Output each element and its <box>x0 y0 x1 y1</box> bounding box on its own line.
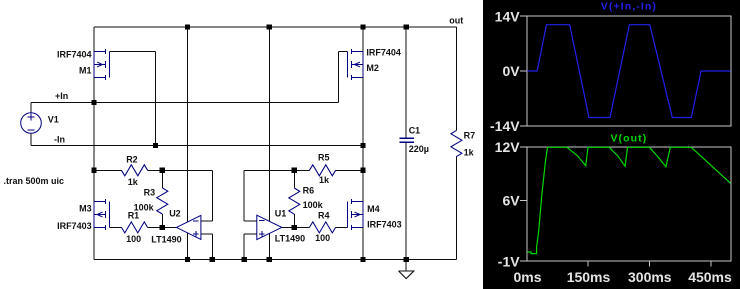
plot 2 frame <box>527 147 731 261</box>
svg-text:R2: R2 <box>126 155 138 165</box>
svg-text:.tran 500m uic: .tran 500m uic <box>4 176 65 186</box>
svg-text:IRF7403: IRF7403 <box>57 221 92 231</box>
wire U2 non-inverting stub <box>201 233 212 235</box>
trace V(out) green waveform <box>527 147 730 253</box>
wire U1 V+ supply riser <box>268 27 270 221</box>
resistor R6 100k body <box>289 188 300 214</box>
wire U2 V- to ground rail <box>186 233 188 260</box>
svg-text:V1: V1 <box>48 115 59 125</box>
wire U2 inverting input riser <box>211 170 213 221</box>
node: +In at left column <box>91 100 96 105</box>
wire R3 bottom lead <box>161 214 163 227</box>
wire R4 right lead / M4 gate <box>336 226 348 228</box>
transistor M3 IRF7403 (NMOS) <box>93 202 95 228</box>
wire R7 top lead <box>455 27 457 130</box>
node A: R2/R3/feedback <box>160 168 165 173</box>
svg-text:100: 100 <box>315 233 330 243</box>
trace V(+In,-In) blue trapezoid waveform <box>527 25 730 118</box>
wire bottom rail (ground net) <box>94 258 456 260</box>
ground symbol <box>405 259 407 271</box>
node: C1 on out rail <box>404 24 409 29</box>
wire C1 bottom lead <box>405 143 407 260</box>
svg-text:IRF7404: IRF7404 <box>366 48 401 58</box>
wire R1 right lead to node B <box>148 226 163 228</box>
node: M4 source gnd <box>360 257 365 262</box>
svg-text:M3: M3 <box>79 203 92 213</box>
svg-text:R6: R6 <box>303 186 315 196</box>
node: R5 right on column <box>360 168 365 173</box>
wire R4 left lead <box>294 226 309 228</box>
svg-text:14V: 14V <box>495 8 521 24</box>
wire right column: M4 source to bottom rail <box>362 227 364 259</box>
wire node B to U2 output <box>162 226 176 228</box>
wire U2 V+ supply riser <box>186 27 188 222</box>
node: U1 V- gnd <box>267 257 272 262</box>
wire left column: M3 source to bottom rail <box>93 227 95 259</box>
svg-text:LT1490: LT1490 <box>151 234 181 244</box>
svg-text:R7: R7 <box>464 131 476 141</box>
svg-text:IRF7404: IRF7404 <box>57 49 92 59</box>
wire R2 left lead <box>94 169 121 171</box>
wire right column: rail to M2 drain <box>362 27 364 52</box>
wire R7 bottom lead <box>455 157 457 260</box>
resistor R3 100k body <box>157 188 168 214</box>
wire U2 inverting input stub <box>201 220 212 222</box>
transistor M1 IRF7404 (PMOS) <box>93 52 95 78</box>
svg-text:C1: C1 <box>409 126 421 136</box>
svg-text:R5: R5 <box>318 152 330 162</box>
node: R2 left <box>91 168 96 173</box>
svg-text:+In: +In <box>55 91 68 101</box>
wire U1 inverting riser <box>243 170 245 221</box>
op-amp U1 LT1490 (output points right) <box>257 215 282 239</box>
wire R3 top lead <box>161 170 163 188</box>
svg-text:U1: U1 <box>275 208 287 218</box>
svg-text:450ms: 450ms <box>688 269 732 285</box>
svg-text:6V: 6V <box>502 193 520 209</box>
wire +In riser to M2 gate <box>338 52 340 103</box>
svg-text:LT1490: LT1490 <box>275 234 305 244</box>
wire R2 right lead to node A <box>148 169 163 171</box>
svg-text:1k: 1k <box>464 147 475 157</box>
transistor M2 IRF7404 (PMOS) <box>362 52 364 78</box>
svg-text:150ms: 150ms <box>567 269 611 285</box>
svg-text:0ms: 0ms <box>513 269 541 285</box>
wire U1 output to R6 bottom node <box>282 226 295 228</box>
svg-text:-In: -In <box>54 135 65 145</box>
op-amp U2 LT1490 (output points left) <box>176 215 201 239</box>
svg-text:IRF7403: IRF7403 <box>367 219 402 229</box>
svg-text:M4: M4 <box>367 204 380 214</box>
wire U1 V- to ground rail <box>268 233 270 259</box>
svg-text:12V: 12V <box>495 139 521 155</box>
wire -In net horizontal <box>31 145 363 147</box>
wire top rail (out net) <box>94 26 456 28</box>
svg-text:M1: M1 <box>79 66 92 76</box>
node: -In at right column <box>360 143 365 148</box>
node: U1 out/R6/R4 <box>292 225 297 230</box>
node: M1 gate on -In <box>153 143 158 148</box>
waveform panel background <box>483 0 740 289</box>
wire U1 inverting to R6 top node <box>244 169 294 171</box>
resistor R4 100 body <box>309 222 335 233</box>
node: R5/R6/U1 inverting <box>292 168 297 173</box>
wire left column: M1 source to M3 drain (through +In, R2 nodes) <box>93 77 95 201</box>
svg-text:R1: R1 <box>128 210 140 220</box>
svg-text:300ms: 300ms <box>628 269 672 285</box>
wire node A to U2 feedback riser <box>162 169 212 171</box>
wire M1 gate drop to -In <box>155 52 157 146</box>
svg-text:-1V: -1V <box>498 253 520 269</box>
resistor R2 1k body <box>121 165 147 176</box>
node: U2 V- on ground rail <box>185 257 190 262</box>
resistor R1 100 body <box>121 222 147 233</box>
node: U2 +in gnd <box>210 257 215 262</box>
wire U1 non-inverting to ground rail <box>243 234 245 259</box>
wire R6 bottom lead <box>293 214 295 227</box>
svg-text:R3: R3 <box>144 188 156 198</box>
node: U1 +in gnd <box>242 257 247 262</box>
transistor M4 IRF7403 (NMOS) <box>362 202 364 228</box>
wire U2 non-inverting to ground rail <box>211 234 213 260</box>
svg-text:V(+In,-In): V(+In,-In) <box>601 1 657 13</box>
svg-text:V(out): V(out) <box>610 132 647 144</box>
voltage source V1 <box>21 113 42 134</box>
wire V1 plus lead <box>30 103 32 113</box>
wire +In net horizontal <box>31 102 339 104</box>
wire U1 inverting stub <box>244 220 257 222</box>
resistor R7 1k body <box>451 130 462 156</box>
wire U1 non-inverting stub <box>244 233 257 235</box>
capacitor C1 220u <box>399 137 414 139</box>
svg-text:out: out <box>449 16 463 26</box>
svg-text:1k: 1k <box>319 175 330 185</box>
node B: U2 out/R1/R3 <box>160 225 165 230</box>
svg-text:U2: U2 <box>169 209 181 219</box>
node: C1/ground <box>404 257 409 262</box>
wire R5 left lead <box>294 169 309 171</box>
svg-text:-14V: -14V <box>490 118 520 134</box>
svg-text:220µ: 220µ <box>409 144 429 154</box>
svg-text:0V: 0V <box>502 63 520 79</box>
svg-text:100: 100 <box>126 234 141 244</box>
svg-text:100k: 100k <box>303 200 324 210</box>
node: M2 drain on out rail <box>360 24 365 29</box>
wire R6 top lead <box>293 170 295 188</box>
wire right column: M2 source to M4 drain (through -In, R5 nodes) <box>362 77 364 201</box>
wire left column: rail to M1 drain <box>93 27 95 52</box>
wire M1 gate horizontal <box>110 51 156 53</box>
resistor R5 1k body <box>309 165 335 176</box>
node: U1 V+ on out rail <box>267 24 272 29</box>
svg-text:1k: 1k <box>128 177 139 187</box>
node: U2 V+ on out rail <box>185 24 190 29</box>
wire M3 gate / R1 left lead <box>110 226 122 228</box>
wire M2 gate stub <box>339 51 348 53</box>
svg-text:M2: M2 <box>366 63 379 73</box>
wire C1 top lead <box>405 27 407 138</box>
plot 1 frame <box>527 16 731 126</box>
wire R5 right lead <box>336 169 363 171</box>
wire V1 minus lead <box>30 133 32 145</box>
svg-text:R4: R4 <box>318 210 330 220</box>
